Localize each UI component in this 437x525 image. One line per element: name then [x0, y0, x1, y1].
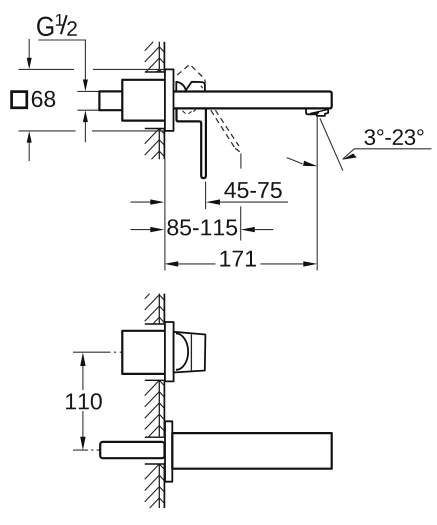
wall hatch lower band — [145, 129, 165, 160]
angle arc — [287, 158, 303, 164]
leader 3-23 — [343, 149, 432, 159]
wall line A — [158, 42, 160, 160]
arrow up to bottom ext — [27, 131, 32, 143]
dashed tick inside base — [201, 86, 204, 90]
wall hatch band 2 — [145, 380, 165, 437]
handle front face line — [190, 334, 192, 370]
wall line B (wall face) — [163, 42, 165, 160]
spout flange — [165, 421, 172, 481]
spout plan — [172, 433, 331, 469]
dashed tick under body — [193, 110, 195, 112]
dim 45-75 — [131, 182, 289, 205]
dashed handle open position (upper) — [177, 64, 205, 83]
supply bar — [100, 442, 164, 458]
arrow down to top ext — [27, 58, 32, 69]
handle dome quarter piece — [176, 82, 186, 93]
dashed lever open position line 1 — [211, 110, 235, 148]
wall line A lower view — [158, 294, 160, 508]
wall hatch band 1 — [145, 294, 165, 324]
arrow up to pipe bottom — [83, 110, 88, 122]
extension line top (escutcheon top) — [19, 68, 165, 70]
spout outlet housing — [306, 108, 328, 116]
spout (side) — [174, 92, 332, 109]
wall hatch upper band — [145, 42, 165, 72]
wall hole cap bottom — [145, 128, 165, 130]
label G 1/2 — [37, 14, 77, 36]
escutcheon plate — [165, 69, 174, 130]
dim 110 — [66, 353, 102, 451]
dashed arc under body — [183, 111, 192, 114]
wall hatch band 3 — [145, 464, 165, 508]
dim line square68 bottom — [28, 143, 30, 162]
handle cube — [174, 332, 206, 373]
dim line square68 top — [28, 39, 30, 59]
dim 171 — [164, 251, 317, 267]
arrow down to pipe top — [83, 80, 88, 92]
dashed lever tip — [235, 149, 241, 155]
centerline spout — [73, 449, 100, 451]
dim 85-115 — [131, 219, 274, 235]
rough-in body 2 — [122, 331, 165, 374]
centerline valve — [73, 351, 122, 353]
leader arrowhead — [342, 154, 357, 160]
body underside + lever (closed) — [177, 108, 206, 178]
aerator slant thick — [311, 112, 319, 114]
label 3-23 — [365, 129, 424, 145]
ext line lever tip — [205, 182, 207, 210]
dashed lever open position line 2 — [215, 110, 239, 146]
aerator slant line — [310, 110, 328, 114]
handle dome — [176, 334, 188, 370]
wall line B lower view — [163, 294, 165, 508]
dim G1/2 leader — [38, 40, 85, 81]
escutcheon 2 — [165, 322, 174, 381]
ext line dashed lever tip — [240, 154, 242, 241]
extension lines pipe G1/2 — [77, 91, 99, 110]
dim line below pipe — [84, 122, 86, 143]
stream angle line — [320, 119, 343, 171]
handle base (closed position) — [184, 82, 205, 93]
wall hole caps lower view — [145, 324, 165, 464]
supply pipe — [99, 91, 122, 110]
ext line wall face — [164, 159, 166, 270]
extension line bottom (escutcheon bottom) — [19, 130, 165, 132]
rough-in body — [122, 80, 165, 121]
label square 68 — [12, 91, 56, 108]
wall hole cap top — [145, 71, 165, 73]
arc arrowhead — [303, 161, 318, 166]
vertical reference line from outlet — [316, 116, 318, 270]
